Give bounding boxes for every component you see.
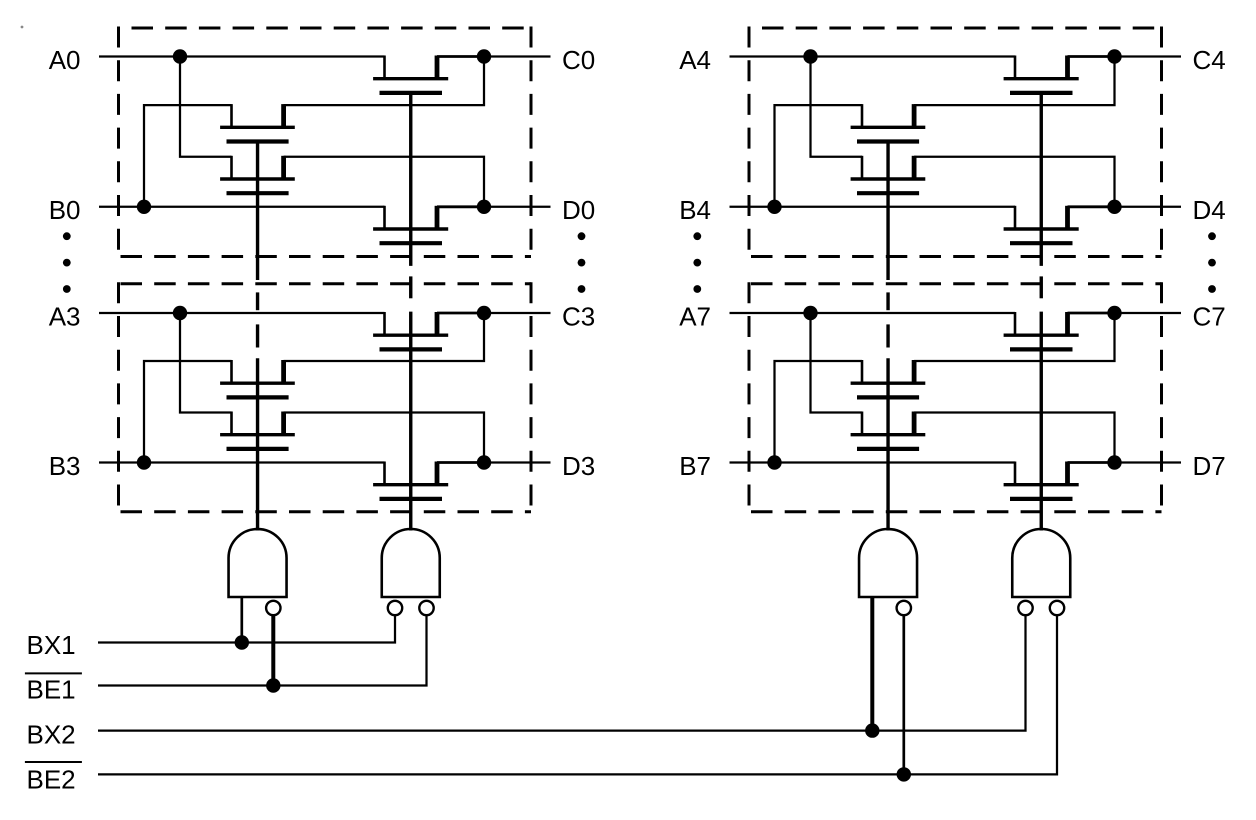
svg-text:A3: A3 (49, 301, 81, 331)
node C3 junction (477, 306, 491, 320)
node BE2 junction at U3 input (897, 767, 911, 781)
wire A4 input line (730, 55, 1016, 57)
wire A0 to cross switch (180, 57, 232, 157)
wire gate line (straight switches) to AND gate output, dashed between cells (409, 93, 412, 531)
wire D3 output line (437, 461, 484, 464)
overline for BE2 (25, 761, 82, 763)
svg-text:BE2: BE2 (27, 765, 76, 795)
AND gate U4 (1012, 529, 1070, 597)
wire cross switch to D4 (914, 157, 1114, 207)
svg-text:A4: A4 (679, 45, 711, 75)
ellipsis dots A0/A3 side (63, 232, 71, 293)
node BE1 junction at U1 input (266, 678, 280, 692)
wire B4 to cross switch (775, 105, 863, 207)
AND gate U1 (229, 529, 287, 597)
AND gate U3 (859, 529, 917, 597)
wire D4 output line (1068, 205, 1115, 208)
node A7 junction (803, 306, 817, 320)
wire C4 output line (1068, 55, 1115, 58)
wire cross switch to D3 (284, 413, 484, 463)
svg-text:BE1: BE1 (27, 675, 76, 705)
node D0 junction (477, 200, 491, 214)
transistor Q2 (B0-C0 cross) (220, 104, 295, 141)
wire B7 to cross switch (775, 361, 863, 463)
transistor Q6 (B3-C3 cross) (220, 360, 295, 397)
ellipsis dots A4/A7 side (693, 232, 701, 293)
svg-text:A7: A7 (679, 301, 711, 331)
transistor Q7 (A3-D3 cross) (220, 412, 295, 449)
transistor Q12 (B4-D4 pass) (1004, 206, 1079, 243)
dashed switch-cell box A7-D7 (749, 282, 1162, 513)
transistor Q15 (A7-D7 cross) (851, 412, 926, 449)
node B4 junction (767, 200, 781, 214)
wire U1 inverted input from BE1 (thick) (271, 616, 275, 686)
svg-text:B4: B4 (679, 195, 711, 225)
transistor Q11 (A4-D4 cross) (851, 156, 926, 193)
node BX2 junction at U3 input (865, 723, 879, 737)
svg-text:C4: C4 (1193, 45, 1226, 75)
wire C0 output line (437, 55, 484, 58)
wire D0 output line (437, 205, 484, 208)
transistor Q3 (A0-D0 cross) (220, 156, 295, 193)
stray speck top-left (21, 26, 24, 29)
inverter bubble on U3 (897, 601, 911, 615)
wire C3 output line (437, 312, 484, 315)
wire BE2 control line (98, 616, 1057, 774)
svg-text:D3: D3 (562, 451, 595, 481)
transistor Q9 (A4-C4 pass) (1004, 56, 1079, 93)
wire C7 output line (1068, 312, 1115, 315)
wire U3 input from BX2 (thick) (870, 596, 874, 731)
wire B4 input line (730, 206, 1016, 208)
wire gate line (straight switches) to AND gate output, dashed between cells (1040, 93, 1043, 531)
wire B0 to cross switch (144, 105, 232, 207)
node D3 junction (477, 455, 491, 469)
inverter bubble on U2 (388, 601, 402, 615)
wire A0 input line (99, 55, 385, 57)
inverter bubble on U2 (419, 601, 433, 615)
wire BX1 control line (98, 616, 395, 643)
transistor Q4 (B0-D0 pass) (373, 206, 448, 243)
svg-text:B3: B3 (49, 451, 81, 481)
node B3 junction (137, 455, 151, 469)
wire cross switch to C3 (284, 313, 484, 361)
wire U1 input from BX1 (240, 596, 243, 643)
wire B0 input line (99, 206, 385, 208)
wire B3 to cross switch (144, 361, 232, 463)
wire gate line (cross switches) to AND gate output, dashed between cells (886, 141, 889, 531)
transistor Q8 (B3-D3 pass) (373, 462, 448, 499)
svg-text:B7: B7 (679, 451, 711, 481)
wire cross switch to C0 (284, 57, 484, 106)
wire cross switch to D7 (914, 413, 1114, 463)
transistor Q1 (A0-C0 pass) (373, 56, 448, 93)
transistor Q5 (A3-C3 pass) (373, 312, 448, 349)
svg-text:B0: B0 (49, 195, 81, 225)
wire A3 input line (99, 312, 385, 314)
overline for BE1 (25, 672, 82, 674)
inverter bubble on U1 (266, 601, 280, 615)
svg-text:C0: C0 (562, 45, 595, 75)
node A4 junction (803, 49, 817, 63)
svg-text:A0: A0 (49, 45, 81, 75)
wire D7 output line (1068, 461, 1115, 464)
svg-text:BX2: BX2 (27, 720, 76, 750)
svg-text:D4: D4 (1193, 195, 1226, 225)
node A3 junction (173, 306, 187, 320)
svg-text:C3: C3 (562, 301, 595, 331)
node B7 junction (767, 455, 781, 469)
inverter bubble on U4 (1018, 601, 1032, 615)
svg-text:D7: D7 (1193, 451, 1226, 481)
AND gate U2 (382, 529, 440, 597)
node C7 junction (1107, 306, 1121, 320)
ellipsis dots C0/C3 side (578, 232, 586, 293)
node B0 junction (137, 200, 151, 214)
wire A3 to cross switch (180, 313, 232, 413)
dashed switch-cell box A0-D0 (119, 27, 532, 259)
svg-text:C7: C7 (1193, 301, 1226, 331)
wire B3 input line (99, 461, 385, 463)
dashed switch-cell box A4-D4 (749, 27, 1162, 259)
wire A7 to cross switch (811, 313, 863, 413)
wire BE1 control line (98, 616, 427, 686)
dashed switch-cell box A3-D3 (119, 282, 532, 513)
node D7 junction (1107, 455, 1121, 469)
node BX1 junction at U1 input (235, 635, 249, 649)
wire A4 to cross switch (811, 57, 863, 157)
wire A7 input line (730, 312, 1016, 314)
node C0 junction (477, 49, 491, 63)
svg-text:D0: D0 (562, 195, 595, 225)
wire BX2 control line (98, 616, 1026, 731)
ellipsis dots C4/C7 side (1208, 232, 1216, 293)
wire U3 inverted input from BE2 (902, 616, 905, 774)
transistor Q13 (A7-C7 pass) (1004, 312, 1079, 349)
wire cross switch to D0 (284, 157, 484, 207)
transistor Q14 (B7-C7 cross) (851, 360, 926, 397)
wire cross switch to C4 (914, 57, 1114, 106)
wire gate line (cross switches) to AND gate output, dashed between cells (256, 141, 259, 531)
inverter bubble on U4 (1050, 601, 1064, 615)
node C4 junction (1107, 49, 1121, 63)
transistor Q10 (B4-C4 cross) (851, 104, 926, 141)
node A0 junction (173, 49, 187, 63)
svg-text:BX1: BX1 (27, 630, 76, 660)
node D4 junction (1107, 200, 1121, 214)
wire B7 input line (730, 461, 1016, 463)
wire cross switch to C7 (914, 313, 1114, 361)
transistor Q16 (B7-D7 pass) (1004, 462, 1079, 499)
